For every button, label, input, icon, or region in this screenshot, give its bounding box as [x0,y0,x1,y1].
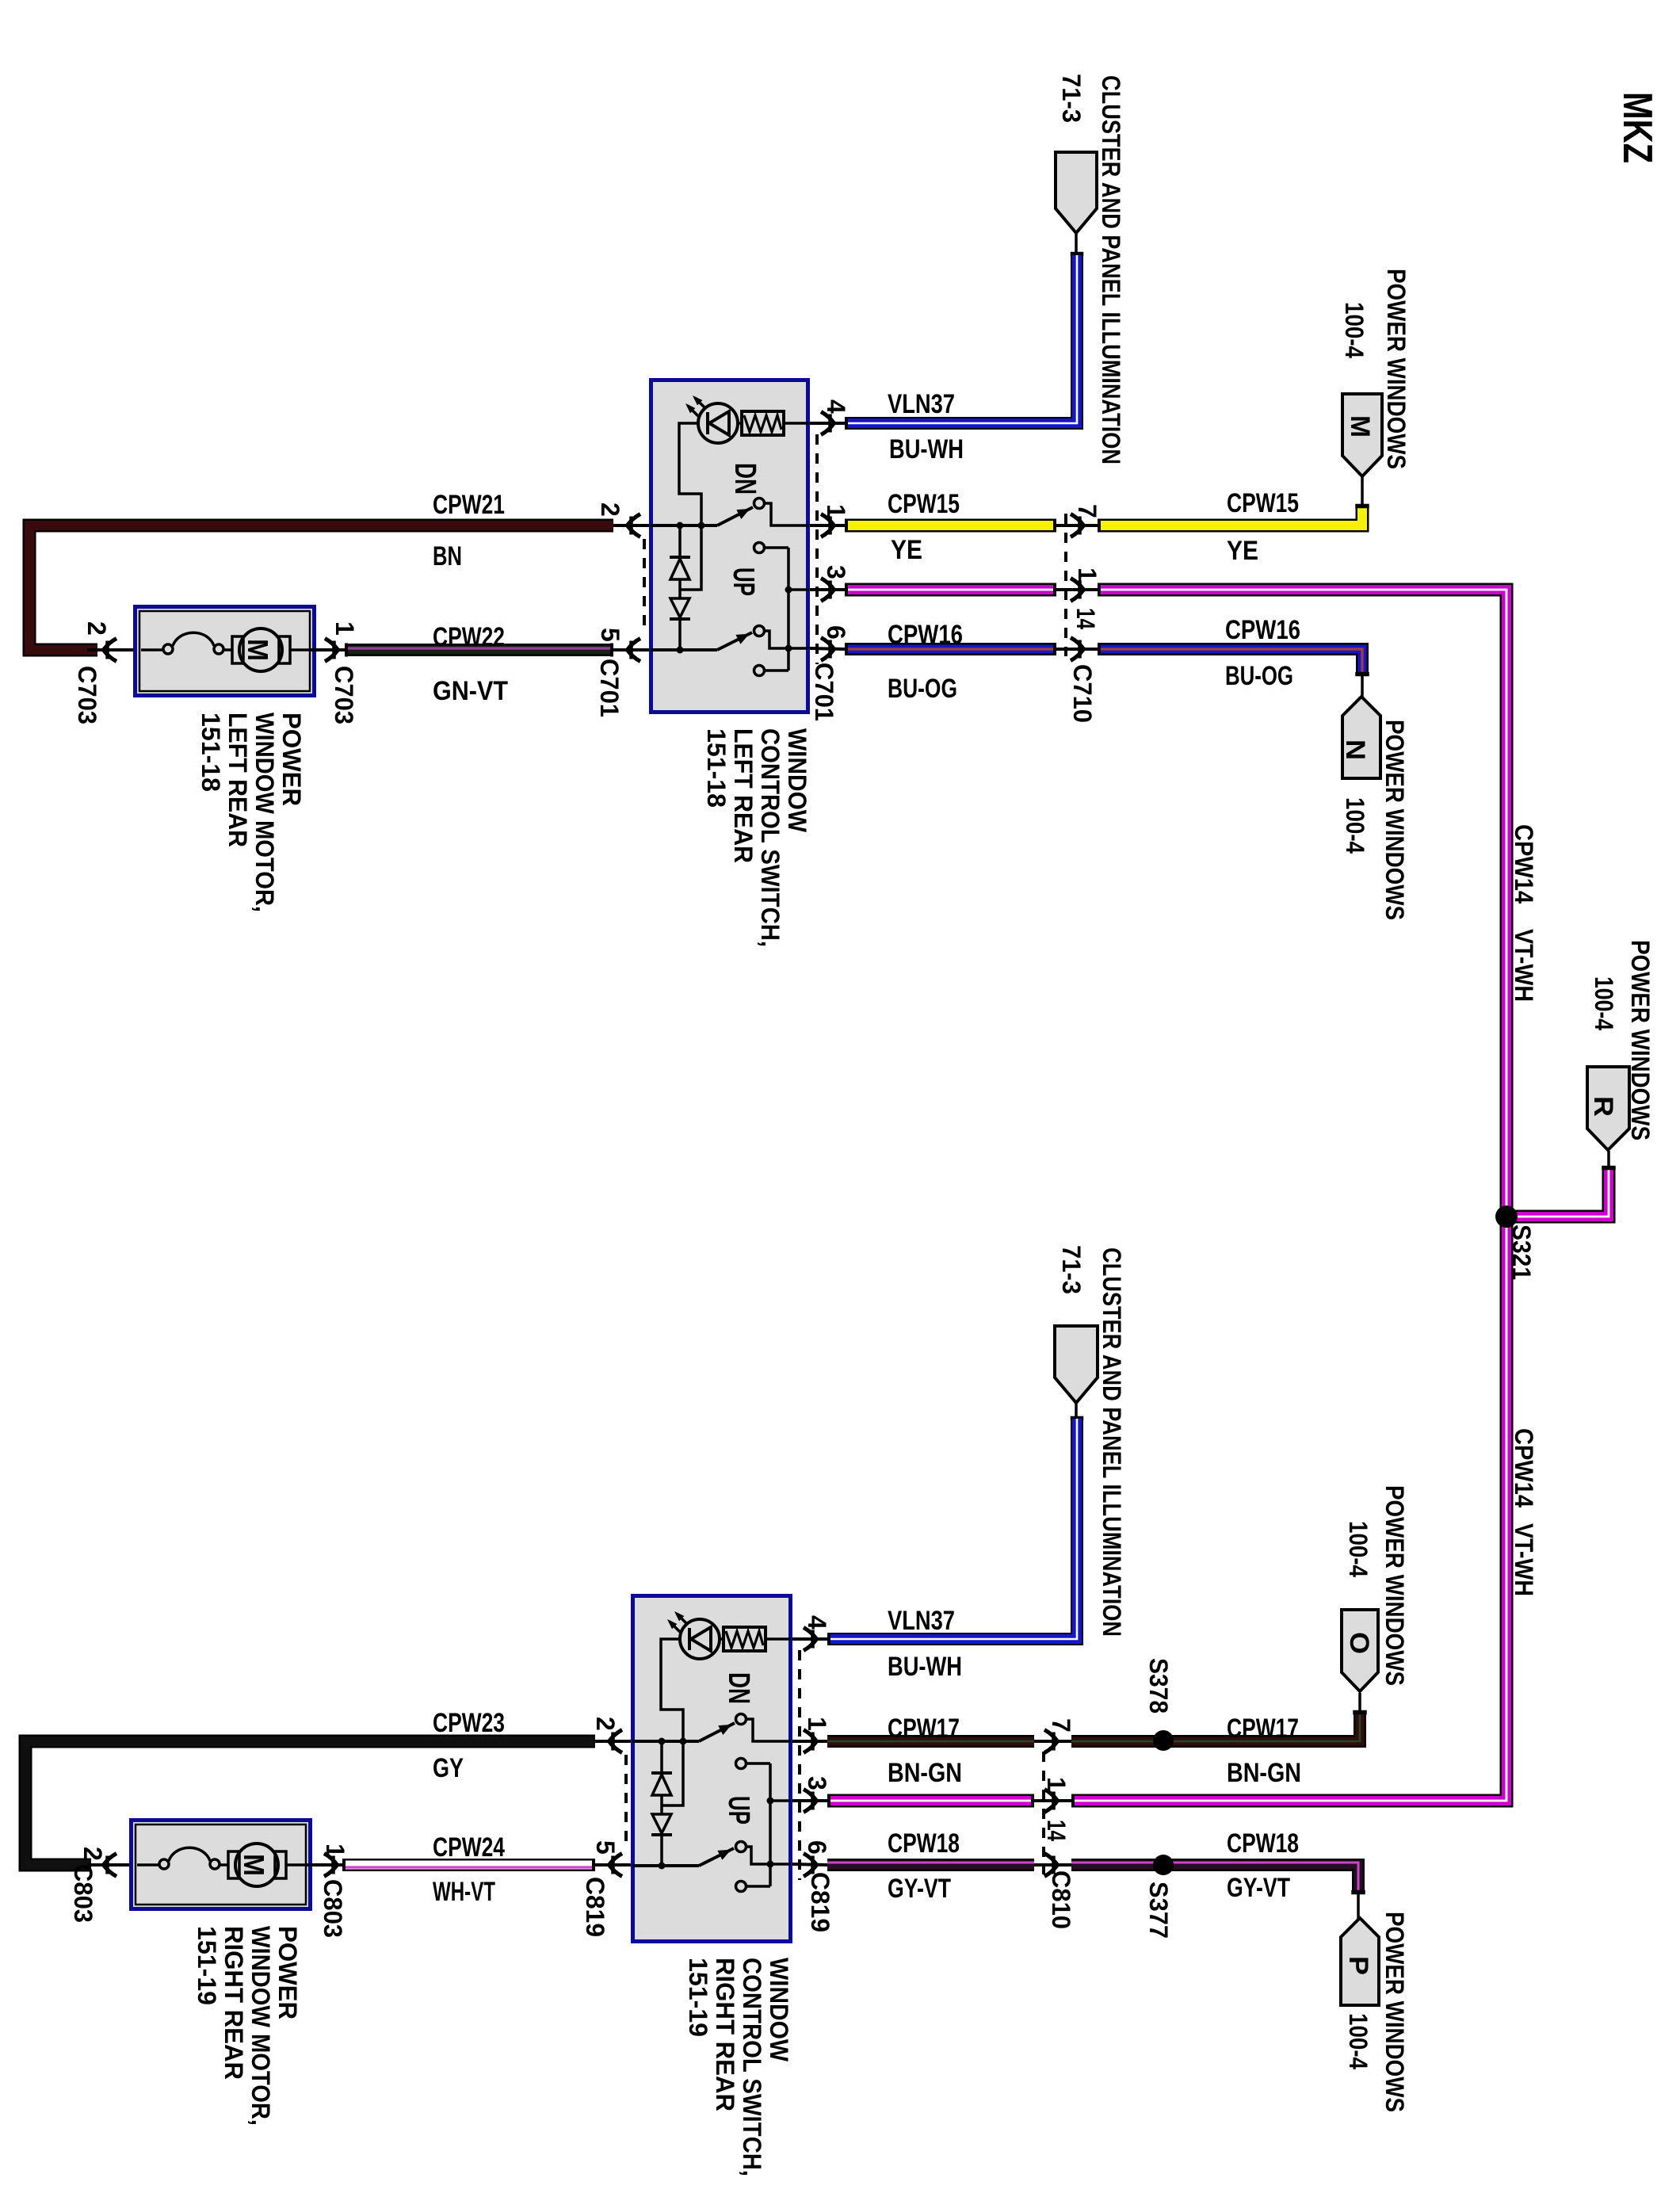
label C803 right [319,1879,347,1938]
svg-text:CPW15: CPW15 [888,489,960,519]
wire LED to resistor (bottom switch) [720,1637,724,1641]
svg-text:1: 1 [1042,1777,1071,1791]
label 100-4 (O) [1344,1521,1373,1577]
label C803 left [69,1864,97,1923]
junction dot UP common (top switch) [785,645,792,652]
dashed connector line C819 right [798,1650,801,1880]
label C701 right [810,663,838,721]
label BU-WH (top) [889,434,964,464]
pin 3 arrow (top switch) [810,579,845,602]
pin 5 label (bottom switch) [591,1840,620,1855]
label POWER WINDOWS (N) [1380,720,1409,920]
junction dot UP common (bottom switch) [767,1861,774,1868]
wire CPW16 BU-OG left [845,643,1056,655]
switch DN blade (top switch) [717,507,753,525]
motor internal wire left (bottom) [137,1863,159,1866]
svg-text:UP: UP [727,567,760,596]
junction dot diode bottom (bottom switch) [659,1863,666,1870]
pin 4 arrow (top switch) [810,412,845,435]
wire VLN37 BU-WH (bottom) [827,1419,1077,1639]
svg-text:CONTROL SWITCH,: CONTROL SWITCH, [738,1958,766,2176]
label CPW18 right [1227,1828,1299,1859]
motor internal wire right (bottom) [286,1863,305,1866]
diode upper (bottom switch) [651,1741,672,1814]
wire CPW22 GN-VT [346,648,613,650]
svg-text:CONTROL SWITCH,: CONTROL SWITCH, [756,728,785,947]
label C810 [1047,1870,1075,1929]
LED indicator (bottom switch) [669,1613,720,1659]
svg-text:POWER WINDOWS: POWER WINDOWS [1380,1485,1409,1686]
label CLUSTER AND PANEL ILLUMINATION (bottom) [1098,1248,1126,1637]
label YE left [891,535,922,565]
wire CPW14 VT-WH pin3 left [845,583,1056,597]
svg-text:GN-VT: GN-VT [433,676,508,706]
switch DN contact (top switch) [754,543,765,553]
label BN-GN left [888,1758,962,1788]
label VLN37 (bottom) [888,1606,955,1636]
pin 4 arrow (bottom switch) [792,1628,827,1651]
wire DN pivot to pin 1 (top switch) [764,503,809,525]
label C819 left [581,1877,609,1937]
wire diode midpoint branch (top switch) [680,527,701,590]
label BN [433,541,462,571]
label S321 [1507,1225,1536,1280]
label POWER WINDOWS (O) [1380,1485,1409,1686]
svg-text:CPW24: CPW24 [433,1832,505,1863]
svg-text:MKZ: MKZ [1614,92,1660,163]
label CPW17 right [1227,1714,1299,1744]
svg-text:POWER: POWER [273,1926,302,2019]
wire LED branch (top switch) [679,423,701,525]
junction dot common pin3 (top switch) [785,587,792,594]
switch UP blade (top switch) [717,632,752,650]
dashed connector line C810 [1042,1752,1045,1874]
svg-text:5: 5 [591,1840,620,1855]
circuit breaker (top motor) [163,632,223,654]
svg-text:14: 14 [1042,1820,1071,1841]
wire stub to connector N [1356,672,1369,697]
pin 2 label (top switch) [596,502,624,517]
dashed connector line C710 [1064,514,1067,656]
junction dot LED branch (top switch) [698,522,705,529]
wire pin 5 to UP blade (top switch) [651,648,717,651]
svg-text:BU-WH: BU-WH [888,1652,962,1682]
junction dot common pin3 (bottom switch) [767,1798,774,1805]
wire DN contact to common (top switch) [765,546,788,549]
pin 7 label (C710) [1073,504,1102,518]
pin 5 arrow (top switch) [613,639,649,662]
svg-text:BU-WH: BU-WH [889,434,964,464]
off-page connector CLUSTER AND PANEL ILLUMINATION (bottom) [1055,1326,1098,1403]
svg-text:YE: YE [891,535,922,565]
wire CPW14 VT-WH trunk [1071,590,1506,1801]
label POWER WINDOWS (P) [1380,1912,1409,2112]
svg-text:C803: C803 [319,1879,347,1938]
wire diode midpoint branch (bottom switch) [662,1743,683,1805]
resistor (illumination) (top switch) [742,411,784,435]
label BU-OG right [1225,661,1293,691]
label GN-VT [433,676,508,706]
svg-text:CPW18: CPW18 [1227,1828,1299,1859]
junction dot LED branch (bottom switch) [680,1738,687,1745]
svg-text:POWER WINDOWS: POWER WINDOWS [1380,720,1409,920]
label UP (bottom switch) [722,1796,755,1824]
label POWER WINDOW MOTOR LEFT REAR [197,713,306,912]
label CPW14 upper [1510,824,1538,904]
wire pin 2 to DN blade (bottom switch) [632,1740,699,1743]
label C701 left [595,659,624,717]
svg-text:VLN37: VLN37 [888,389,955,419]
pin 1 label (bottom motor) [321,1844,349,1858]
junction dot diode branch top (top switch) [677,522,684,529]
pin 1 label (C810) [1042,1777,1071,1791]
svg-text:POWER WINDOWS: POWER WINDOWS [1626,940,1655,1141]
label DN (bottom switch) [722,1672,755,1704]
off-page connector N POWER WINDOWS [1340,697,1380,778]
motor internal wire left [141,648,163,651]
svg-text:S377: S377 [1144,1882,1173,1939]
wire VLN37 BU-WH (top) [845,255,1077,423]
pin 6 arrow (top switch) [810,638,845,661]
svg-text:CPW17: CPW17 [888,1714,960,1744]
dashed connector line C701 right [815,434,819,664]
power window motor left rear box [136,607,315,696]
svg-text:C819: C819 [806,1872,834,1932]
svg-text:S321: S321 [1507,1225,1536,1280]
wire DN contact to common (bottom switch) [746,1762,770,1765]
label GY [433,1753,464,1783]
label 100-4 (N) [1341,797,1369,854]
svg-text:POWER WINDOWS: POWER WINDOWS [1382,269,1411,469]
label BU-OG left [888,674,957,704]
svg-text:1: 1 [803,1717,831,1731]
pin 3 label (bottom switch) [803,1776,831,1790]
svg-text:5: 5 [596,628,624,642]
switch DN pivot (top switch) [754,499,765,509]
svg-text:M: M [1345,415,1375,437]
svg-text:CPW14: CPW14 [1510,1428,1538,1507]
label CPW18 left [888,1828,960,1859]
wire CPW18 GY-VT left [827,1863,1034,1865]
svg-text:100-4: 100-4 [1341,797,1369,854]
label C710 [1068,664,1097,723]
svg-text:RIGHT REAR: RIGHT REAR [220,1926,248,2080]
svg-text:BN: BN [433,541,462,571]
connector C810 pin14 arrow [1034,1854,1071,1877]
label POWER WINDOWS (R) [1626,940,1655,1141]
label GY-VT left [888,1874,951,1904]
wire pin 5 to UP blade (bottom switch) [632,1864,699,1867]
label 100-4 (P) [1344,2013,1373,2069]
LED indicator (top switch) [687,397,738,443]
svg-text:WINDOW: WINDOW [783,728,811,833]
pin 1 arrow (top switch) [810,514,845,537]
label VT-WH lower [1510,1523,1538,1596]
svg-text:C819: C819 [581,1877,609,1937]
svg-text:CPW17: CPW17 [1227,1714,1299,1744]
svg-text:7: 7 [1073,504,1102,518]
dashed connector line C701 left [643,539,646,634]
svg-text:LEFT REAR: LEFT REAR [223,713,252,847]
wire LED branch (bottom switch) [661,1639,683,1741]
svg-text:CPW16: CPW16 [888,620,963,650]
wire CPW15 YE right [1098,507,1362,525]
svg-text:CPW21: CPW21 [433,490,505,520]
svg-text:BN-GN: BN-GN [1227,1758,1301,1788]
pin 4 label (bottom switch) [803,1615,831,1630]
svg-text:2: 2 [78,1847,107,1861]
pin 1 arrow (bottom switch) [792,1730,827,1753]
wire CPW14 VT-WH pin3 bottom left [827,1794,1034,1808]
switch UP pivot (bottom switch) [736,1842,746,1852]
svg-text:14: 14 [1071,608,1100,629]
wire common vertical (bottom switch) [769,1763,772,1886]
svg-text:CLUSTER AND PANEL ILLUMINATION: CLUSTER AND PANEL ILLUMINATION [1098,1248,1126,1637]
label GY-VT right [1227,1873,1290,1903]
pin 2 arrow (bottom switch) [595,1730,631,1753]
pin 5 arrow (bottom switch) [595,1854,631,1877]
wire common to pin 3 (top switch) [788,588,809,591]
svg-text:151-19: 151-19 [684,1958,712,2037]
wire resistor to pin 4 (top switch) [784,422,809,425]
svg-text:C701: C701 [810,663,838,721]
diode lower (top switch) [670,598,690,650]
label 100-4 (R) [1590,976,1618,1030]
svg-text:151-19: 151-19 [193,1926,221,2005]
svg-text:100-4: 100-4 [1340,302,1369,358]
svg-text:BU-OG: BU-OG [888,674,957,704]
wire CPW15 YE left [845,519,1056,533]
svg-text:CPW15: CPW15 [1227,488,1299,518]
wire UP pivot to pin 6 (bottom switch) [746,1847,791,1864]
wire UP contact to common (top switch) [765,669,788,672]
pin 3 label (top switch) [822,565,850,579]
svg-text:2: 2 [591,1717,620,1731]
motor M symbol (top) [232,629,290,671]
svg-text:R: R [1588,1096,1618,1117]
wire UP pivot to pin 6 (top switch) [764,631,809,648]
splice S378 [1153,1730,1174,1751]
svg-text:6: 6 [803,1840,831,1855]
svg-text:CPW16: CPW16 [1225,615,1300,645]
wire resistor to pin 4 (bottom switch) [766,1637,791,1641]
off-page connector R POWER WINDOWS [1587,1067,1629,1150]
svg-text:100-4: 100-4 [1344,1521,1373,1577]
svg-text:1: 1 [1073,567,1102,582]
wire stub to connector O [1354,1693,1367,1714]
switch DN contact (bottom switch) [736,1759,746,1769]
svg-text:GY-VT: GY-VT [888,1874,951,1904]
switch UP contact (bottom switch) [736,1882,746,1892]
pin 1 label (top motor) [330,621,359,636]
dashed connector line C819 left [624,1755,628,1850]
pin 14 label (C710) [1071,608,1100,629]
connector C710 pin7 arrow [1056,514,1098,537]
switch UP contact (top switch) [754,666,765,676]
label YE right [1227,536,1258,566]
svg-text:N: N [1340,739,1370,760]
connector C803 pin2 arrow [87,1854,129,1877]
svg-text:7: 7 [1047,1718,1075,1733]
label CPW17 left [888,1714,960,1744]
wire DN pivot to pin 1 (bottom switch) [746,1719,791,1741]
label POWER WINDOWS (M) [1382,269,1411,469]
diode lower (bottom switch) [651,1814,672,1866]
pin 1 label (top switch) [822,504,850,518]
wire stub cluster to VLN37 (top) [1071,233,1083,257]
svg-text:GY: GY [433,1753,464,1783]
pin 2 label (bottom switch) [591,1717,620,1731]
label CPW24 [433,1832,505,1863]
label C703 right [330,666,358,724]
svg-text:100-4: 100-4 [1590,976,1618,1030]
svg-text:LEFT REAR: LEFT REAR [729,728,758,863]
svg-text:S378: S378 [1144,1658,1173,1714]
svg-text:DN: DN [728,463,762,495]
wire CPW24 WH-VT [342,1865,595,1867]
svg-text:VT-WH: VT-WH [1510,1523,1538,1596]
svg-text:151-18: 151-18 [197,713,225,792]
svg-text:VT-WH: VT-WH [1510,929,1538,1002]
svg-text:CPW22: CPW22 [433,622,505,652]
label C819 right [806,1872,834,1932]
label 71-3 (top) [1057,74,1086,123]
switch UP blade (bottom switch) [699,1848,734,1866]
wire CPW17 BN-GN left [827,1735,1034,1748]
svg-text:POWER: POWER [277,713,306,806]
svg-text:3: 3 [803,1776,831,1790]
label VLN37 (top) [888,389,955,419]
wire CPW18 GY-VT right [1071,1863,1358,1893]
svg-text:2: 2 [82,621,111,636]
pin 14 label (C810) [1042,1820,1071,1841]
window control switch left rear box [651,380,808,713]
circuit breaker (bottom motor) [159,1847,220,1869]
pin 7 label (C810) [1047,1718,1075,1733]
svg-text:GY-VT: GY-VT [1227,1873,1290,1903]
wire stub to connector R [1602,1151,1616,1170]
label 100-4 (M) [1340,302,1369,358]
connector C703 pin1 arrow [309,639,346,662]
svg-text:4: 4 [822,399,850,414]
wire stub to connector M [1356,477,1369,508]
svg-text:4: 4 [803,1615,831,1630]
svg-text:VLN37: VLN37 [888,1606,955,1636]
junction dot diode branch top (bottom switch) [659,1738,666,1745]
svg-text:C710: C710 [1068,664,1097,723]
wire common vertical (top switch) [787,548,790,671]
splice S377 [1153,1855,1174,1875]
splice S321 [1495,1205,1518,1228]
wire CPW21 BN [29,525,613,650]
off-page connector CLUSTER AND PANEL ILLUMINATION (top) [1056,152,1097,233]
svg-text:1: 1 [330,621,359,636]
pin 6 label (top switch) [822,625,850,640]
pin 2 label (bottom motor) [78,1847,107,1861]
label UP (top switch) [727,567,760,596]
label WH-VT [433,1877,495,1907]
svg-text:100-4: 100-4 [1344,2013,1373,2069]
wire stub cluster to VLN37 (bottom) [1071,1403,1083,1420]
svg-text:3: 3 [822,565,850,579]
svg-text:CPW14: CPW14 [1510,824,1538,904]
svg-text:WINDOW MOTOR,: WINDOW MOTOR, [250,713,279,912]
wire pin 2 to DN blade (top switch) [651,524,717,527]
title MKZ [1614,92,1660,163]
svg-text:CPW18: CPW18 [888,1828,960,1859]
svg-text:71-3: 71-3 [1057,74,1086,123]
connector C803 pin1 arrow [305,1854,342,1877]
pin 5 label (top switch) [596,628,624,642]
label DN (top switch) [728,463,762,495]
label CPW15 right [1227,488,1299,518]
wire CPW23 GY [25,1741,595,1865]
motor internal wire middle (bottom) [220,1863,229,1866]
connector C710 pin1 arrow [1056,579,1098,602]
pin 6 label (bottom switch) [803,1840,831,1855]
svg-text:C703: C703 [73,666,101,724]
label CLUSTER AND PANEL ILLUMINATION (top) [1097,75,1125,464]
svg-text:1: 1 [321,1844,349,1858]
svg-text:C701: C701 [595,659,624,717]
svg-text:P: P [1343,1956,1373,1975]
label CPW15 left [888,489,960,519]
svg-text:BU-OG: BU-OG [1225,661,1293,691]
switch DN blade (bottom switch) [699,1723,735,1741]
connector C810 pin1 arrow [1034,1790,1071,1813]
label CPW23 [433,1708,505,1738]
motor M symbol (bottom) [228,1844,286,1886]
wire CPW17 BN-GN right [1071,1714,1360,1741]
switch DN pivot (bottom switch) [736,1714,746,1725]
motor internal wire right [290,648,309,651]
svg-text:151-18: 151-18 [702,728,731,808]
label VT-WH upper [1510,929,1538,1002]
pin 6 arrow (bottom switch) [792,1854,827,1877]
pin 4 label (top switch) [822,399,850,414]
window control switch right rear box [633,1596,791,1942]
svg-text:C803: C803 [69,1864,97,1923]
wire stub to connector P [1352,1890,1365,1919]
pin 1 label (C710) [1073,567,1102,582]
svg-text:71-3: 71-3 [1057,1245,1086,1294]
wire LED to resistor (top switch) [738,422,742,425]
label 71-3 (bottom) [1057,1245,1086,1294]
label CPW16 right [1225,615,1300,645]
svg-text:UP: UP [722,1796,755,1824]
label S378 [1144,1658,1173,1714]
svg-text:DN: DN [722,1672,755,1704]
switch UP pivot (top switch) [754,626,765,636]
svg-text:C703: C703 [330,666,358,724]
off-page connector M POWER WINDOWS [1342,394,1382,476]
wire common to pin 3 (bottom switch) [770,1799,791,1802]
label CPW21 [433,490,505,520]
pin 3 arrow (bottom switch) [792,1790,827,1813]
junction dot diode bottom (top switch) [677,647,684,654]
svg-text:M: M [242,639,274,661]
svg-text:YE: YE [1227,536,1258,566]
label WINDOW CONTROL SWITCH LEFT REAR [702,728,811,947]
wire branch to connector R [1500,1169,1609,1217]
svg-text:WH-VT: WH-VT [433,1877,495,1907]
connector C810 pin7 arrow [1034,1730,1071,1753]
svg-text:BN-GN: BN-GN [888,1758,962,1788]
motor internal wire middle [223,648,233,651]
svg-text:CPW23: CPW23 [433,1708,505,1738]
pin 2 label (top motor) [82,621,111,636]
svg-text:O: O [1344,1632,1374,1654]
